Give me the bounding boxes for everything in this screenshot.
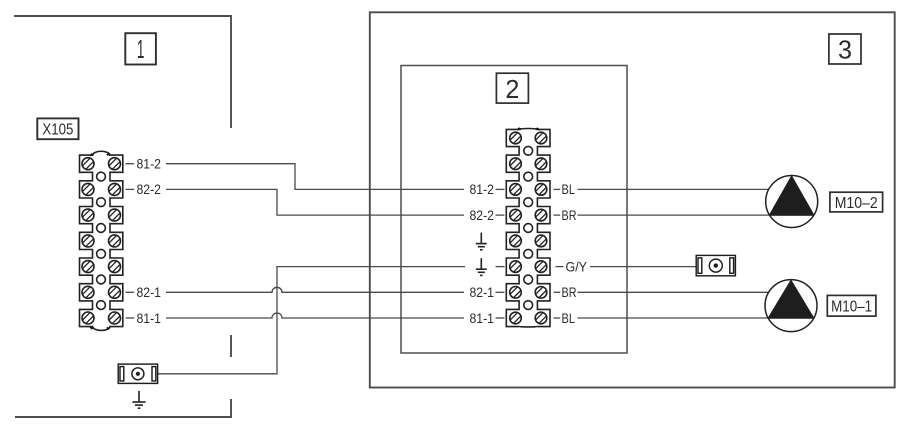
wire 82-2 from X105 pin to terminal strip 2 bbox=[166, 189, 464, 215]
svg-text:BR: BR bbox=[562, 284, 577, 300]
label M10-1 bbox=[827, 295, 876, 316]
wire stub X105 pin 81-2 bbox=[126, 163, 135, 165]
wire BL to pump M10-1 bbox=[578, 317, 771, 319]
strip 2 break mark top bbox=[517, 128, 539, 130]
svg-text:G/Y: G/Y bbox=[566, 258, 588, 274]
label box 1 bbox=[125, 33, 156, 64]
wire BR to pump M10-1 bbox=[578, 291, 771, 293]
svg-text:82-1: 82-1 bbox=[470, 284, 495, 300]
connector X105 terminal strip outline bbox=[80, 151, 123, 330]
wire stub strip2 pin 82-2 bbox=[496, 214, 505, 216]
wire stub strip2 pin 82-1 bbox=[496, 291, 505, 293]
wire stub strip2 ground pin bbox=[496, 266, 505, 268]
wire stub X105 pin 81-1 bbox=[126, 317, 135, 319]
svg-text:1: 1 bbox=[137, 34, 145, 64]
wire 81-1 from X105 to terminal strip 2 (hops over vertical wire) bbox=[166, 313, 464, 318]
enclosure box 1 (partial border) bbox=[14, 16, 231, 417]
svg-text:M10–2: M10–2 bbox=[835, 195, 878, 212]
pump M10-2 bbox=[766, 176, 818, 228]
X105 break mark bottom bbox=[90, 327, 110, 329]
wire stub X105 pin 82-2 bbox=[126, 188, 135, 190]
label M10-2 bbox=[830, 192, 883, 212]
svg-text:81-2: 81-2 bbox=[470, 181, 495, 197]
X105 inter-terminal holes bbox=[97, 172, 106, 309]
pump M10-1 bbox=[765, 280, 817, 332]
enclosure box 3 bbox=[370, 12, 895, 387]
svg-text:81-1: 81-1 bbox=[470, 310, 495, 326]
shield clamp left (on X105 side) bbox=[118, 364, 157, 383]
X105 screw slots bbox=[83, 158, 120, 323]
wire 82-1 from X105 to terminal strip 2 (hops over vertical wire) bbox=[166, 287, 464, 292]
svg-text:82-1: 82-1 bbox=[137, 284, 162, 300]
wire G/Y shield from left clamp up to terminal strip 2 bbox=[158, 267, 465, 374]
svg-text:2: 2 bbox=[505, 74, 519, 104]
label box 2 bbox=[496, 73, 528, 104]
svg-text:82-2: 82-2 bbox=[470, 207, 495, 223]
wire stub strip2 pin 81-2 bbox=[496, 188, 505, 190]
wire stub -BL row bbox=[554, 188, 561, 190]
svg-text:M10–1: M10–1 bbox=[831, 298, 872, 315]
ground symbol below left clamp bbox=[132, 391, 145, 408]
ground symbol on G/Y wire bbox=[476, 258, 487, 275]
X105 break mark top bbox=[90, 154, 110, 156]
label box 3 bbox=[829, 34, 861, 65]
wire BL to pump M10-2 bbox=[578, 188, 771, 190]
shield clamp right (on G/Y wire) bbox=[696, 255, 735, 275]
svg-text:3: 3 bbox=[838, 35, 852, 65]
enclosure box 2 bbox=[401, 66, 627, 354]
svg-text:82-2: 82-2 bbox=[137, 181, 162, 197]
wire stub strip2 pin 81-1 bbox=[496, 317, 505, 319]
ground symbol upper (strip 2 row 5) bbox=[476, 233, 487, 250]
svg-text:BR: BR bbox=[562, 207, 577, 223]
wire 81-2 from X105 pin to terminal strip 2 bbox=[166, 164, 464, 190]
svg-text:BL: BL bbox=[562, 310, 576, 326]
svg-text:BL: BL bbox=[562, 181, 576, 197]
wire BR to pump M10-2 bbox=[578, 214, 771, 216]
wire stub -BR row bbox=[554, 214, 561, 216]
svg-text:X105: X105 bbox=[42, 121, 73, 138]
wire stub -G/Y row bbox=[556, 266, 564, 268]
terminal strip 2 outline bbox=[506, 128, 550, 326]
wire G/Y to right clamp bbox=[590, 266, 696, 268]
wire stub -BR row lower bbox=[554, 291, 561, 293]
svg-text:81-2: 81-2 bbox=[137, 156, 162, 172]
strip 2 screw slots bbox=[510, 133, 546, 323]
label X105 bbox=[37, 118, 78, 139]
wire stub -BL row lower bbox=[554, 317, 561, 319]
X105 screw terminals bbox=[82, 158, 121, 324]
wire stub X105 pin 82-1 bbox=[126, 291, 135, 293]
strip 2 screw terminals bbox=[510, 132, 547, 324]
strip 2 inter-terminal holes bbox=[524, 146, 533, 309]
svg-text:81-1: 81-1 bbox=[137, 310, 162, 326]
